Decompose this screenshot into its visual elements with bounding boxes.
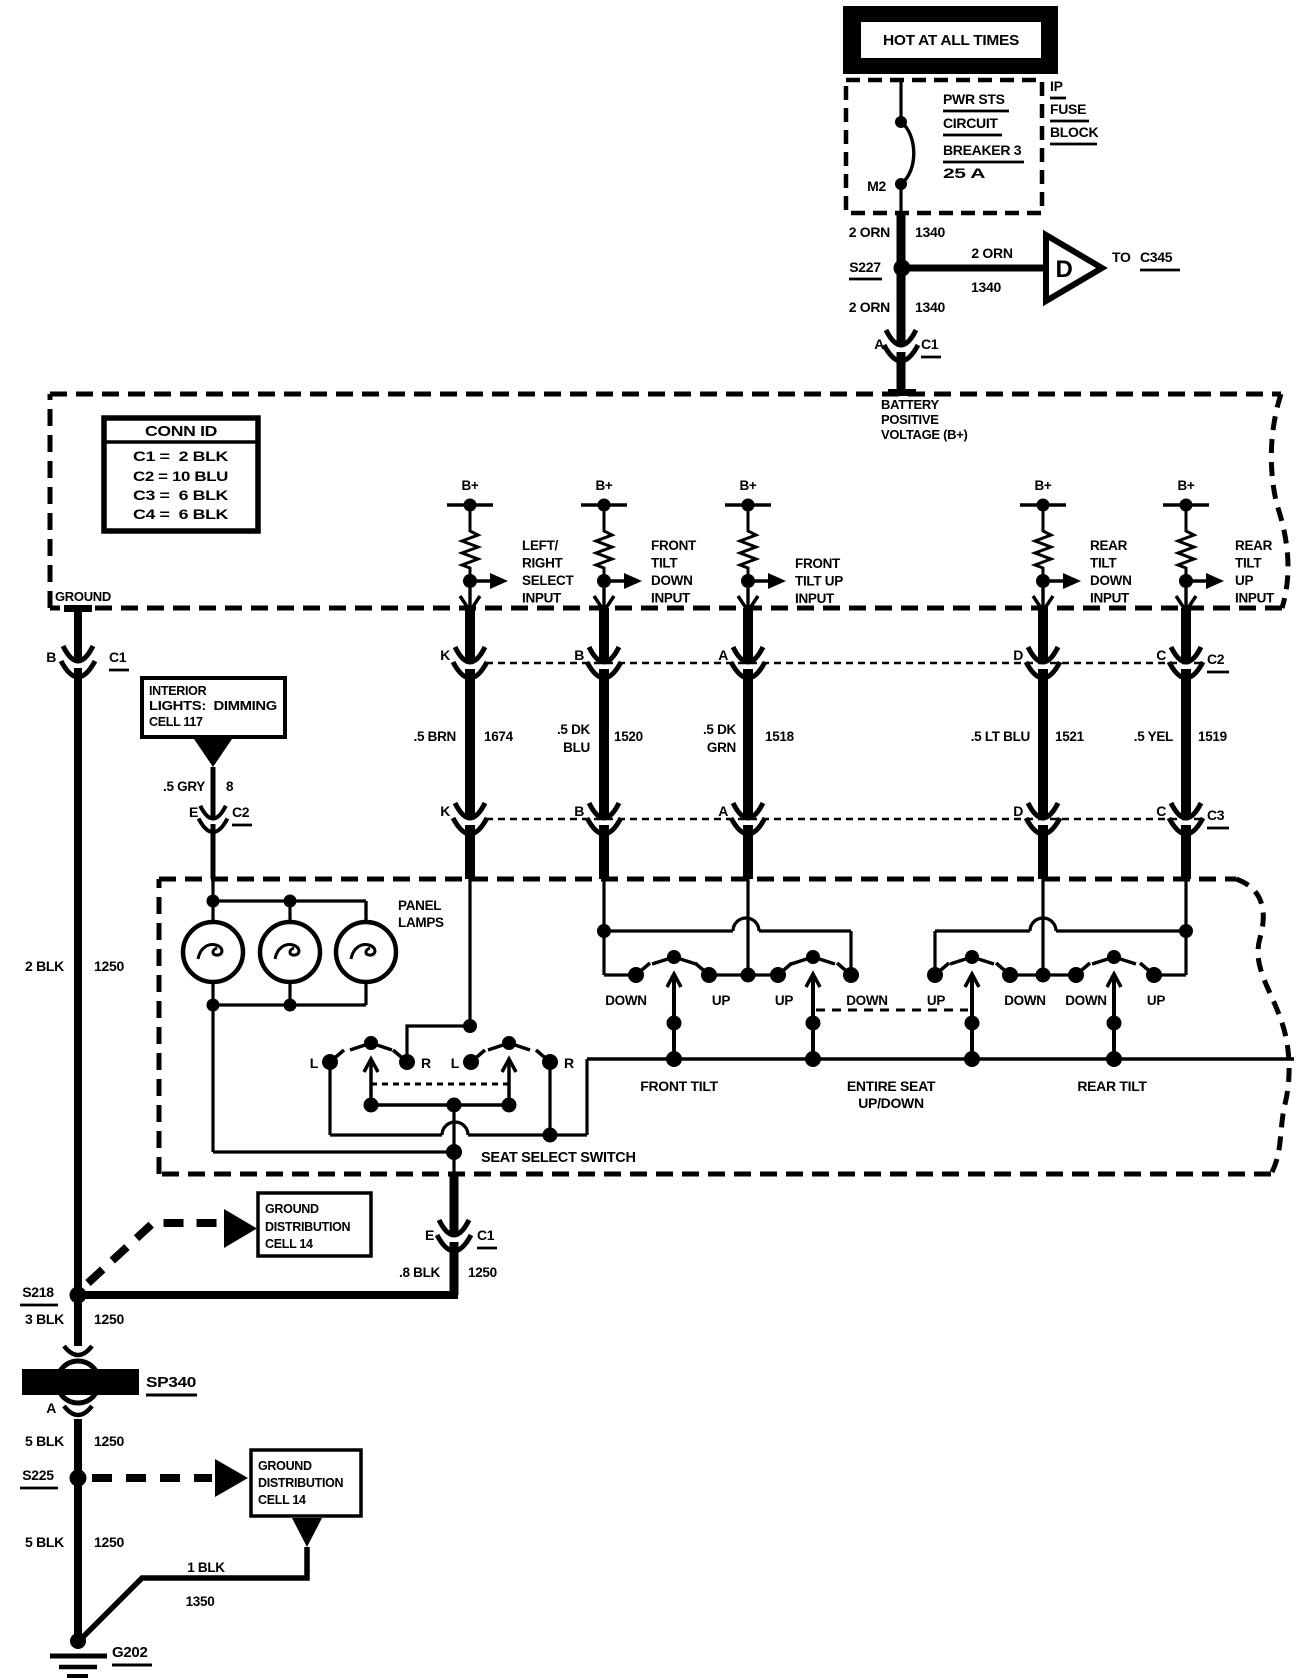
svg-text:DOWN: DOWN <box>846 993 888 1008</box>
svg-text:FRONT: FRONT <box>651 538 697 553</box>
svg-text:LEFT/: LEFT/ <box>522 538 559 553</box>
svg-text:C345: C345 <box>1140 249 1173 265</box>
svg-text:GRN: GRN <box>707 740 736 755</box>
svg-text:REAR: REAR <box>1235 538 1273 553</box>
svg-text:FRONT TILT: FRONT TILT <box>640 1078 718 1094</box>
svg-text:2 ORN: 2 ORN <box>849 224 890 240</box>
svg-text:C2 = 10 BLU: C2 = 10 BLU <box>133 468 228 484</box>
svg-text:CELL 14: CELL 14 <box>265 1237 313 1251</box>
svg-text:2 ORN: 2 ORN <box>849 299 890 315</box>
svg-text:INPUT: INPUT <box>1090 591 1130 606</box>
svg-text:ENTIRE SEAT: ENTIRE SEAT <box>847 1078 936 1094</box>
svg-text:CELL 14: CELL 14 <box>258 1493 306 1507</box>
svg-text:FRONT: FRONT <box>795 556 841 571</box>
svg-text:1520: 1520 <box>614 729 643 744</box>
svg-text:1250: 1250 <box>94 958 124 974</box>
svg-text:1250: 1250 <box>94 1534 124 1550</box>
svg-text:FUSE: FUSE <box>1050 101 1086 117</box>
svg-text:TILT UP: TILT UP <box>795 574 843 589</box>
svg-text:C2: C2 <box>1207 651 1225 667</box>
svg-text:B+: B+ <box>739 478 756 493</box>
svg-text:LIGHTS: DIMMING: LIGHTS: DIMMING <box>149 699 277 713</box>
svg-text:1250: 1250 <box>468 1265 497 1280</box>
svg-text:E: E <box>425 1227 434 1243</box>
svg-text:2 ORN: 2 ORN <box>971 245 1012 261</box>
svg-text:POSITIVE: POSITIVE <box>881 412 939 427</box>
svg-text:1 BLK: 1 BLK <box>187 1560 225 1575</box>
svg-text:UP: UP <box>1235 573 1253 588</box>
svg-text:E: E <box>189 804 198 820</box>
svg-text:25 A: 25 A <box>943 165 985 181</box>
svg-text:A: A <box>718 647 728 663</box>
svg-text:CIRCUIT: CIRCUIT <box>943 115 998 131</box>
svg-text:R: R <box>421 1055 431 1071</box>
svg-text:PWR STS: PWR STS <box>943 91 1005 107</box>
svg-text:B+: B+ <box>1177 478 1194 493</box>
svg-text:SEAT SELECT SWITCH: SEAT SELECT SWITCH <box>481 1150 636 1166</box>
svg-text:DOWN: DOWN <box>1065 993 1107 1008</box>
svg-text:C4 = 6 BLK: C4 = 6 BLK <box>133 506 228 522</box>
svg-text:.8 BLK: .8 BLK <box>399 1265 441 1280</box>
svg-text:TILT: TILT <box>1090 556 1117 571</box>
svg-text:.5 LT BLU: .5 LT BLU <box>971 729 1030 744</box>
svg-text:5 BLK: 5 BLK <box>25 1534 64 1550</box>
svg-text:INPUT: INPUT <box>522 591 562 606</box>
svg-text:VOLTAGE (B+): VOLTAGE (B+) <box>881 427 968 442</box>
svg-text:C1: C1 <box>109 649 127 665</box>
svg-text:C: C <box>1156 803 1166 819</box>
svg-text:8: 8 <box>226 779 234 794</box>
svg-text:DOWN: DOWN <box>651 573 693 588</box>
svg-text:C1 = 2 BLK: C1 = 2 BLK <box>133 448 228 464</box>
svg-text:.5 GRY: .5 GRY <box>163 779 205 794</box>
svg-text:.5 BRN: .5 BRN <box>414 729 456 744</box>
svg-text:1518: 1518 <box>765 729 795 744</box>
svg-text:G202: G202 <box>112 1644 148 1661</box>
svg-text:1521: 1521 <box>1055 729 1085 744</box>
svg-text:D: D <box>1013 803 1023 819</box>
svg-text:INPUT: INPUT <box>795 591 835 606</box>
svg-text:M2: M2 <box>867 178 886 194</box>
svg-text:1250: 1250 <box>94 1433 124 1449</box>
svg-text:CONN ID: CONN ID <box>145 423 218 440</box>
svg-text:BLU: BLU <box>563 740 590 755</box>
svg-text:L: L <box>310 1055 319 1071</box>
svg-text:1340: 1340 <box>915 299 945 315</box>
svg-text:IP: IP <box>1050 78 1063 94</box>
svg-text:INPUT: INPUT <box>1235 591 1275 606</box>
svg-text:A: A <box>718 803 728 819</box>
svg-text:UP: UP <box>927 993 945 1008</box>
svg-text:D: D <box>1013 647 1023 663</box>
svg-text:UP: UP <box>712 993 730 1008</box>
svg-text:BLOCK: BLOCK <box>1050 124 1098 140</box>
svg-text:TILT: TILT <box>651 556 678 571</box>
svg-text:DISTRIBUTION: DISTRIBUTION <box>265 1220 351 1234</box>
svg-text:BREAKER 3: BREAKER 3 <box>943 142 1022 158</box>
svg-text:UP: UP <box>1147 993 1165 1008</box>
svg-text:2 BLK: 2 BLK <box>25 958 64 974</box>
svg-text:HOT AT ALL TIMES: HOT AT ALL TIMES <box>883 32 1019 49</box>
svg-text:UP/DOWN: UP/DOWN <box>858 1095 924 1111</box>
svg-text:K: K <box>440 803 450 819</box>
svg-text:C3 = 6 BLK: C3 = 6 BLK <box>133 487 228 503</box>
svg-text:INTERIOR: INTERIOR <box>149 684 207 698</box>
svg-text:K: K <box>440 647 450 663</box>
svg-text:DOWN: DOWN <box>1090 573 1132 588</box>
svg-text:B+: B+ <box>461 478 478 493</box>
svg-text:S225: S225 <box>22 1467 54 1483</box>
svg-text:.5 DK: .5 DK <box>557 722 591 737</box>
svg-text:GROUND: GROUND <box>265 1202 319 1216</box>
svg-text:S227: S227 <box>849 259 881 275</box>
svg-text:1519: 1519 <box>1198 729 1227 744</box>
svg-text:CELL 117: CELL 117 <box>149 715 203 729</box>
svg-text:1340: 1340 <box>915 224 945 240</box>
svg-text:SELECT: SELECT <box>522 573 575 588</box>
svg-text:C: C <box>1156 647 1166 663</box>
svg-text:BATTERY: BATTERY <box>881 397 939 412</box>
svg-text:.5 YEL: .5 YEL <box>1134 729 1173 744</box>
svg-text:B: B <box>574 803 584 819</box>
svg-text:A: A <box>874 336 884 352</box>
svg-text:B: B <box>46 649 56 665</box>
svg-text:DISTRIBUTION: DISTRIBUTION <box>258 1476 344 1490</box>
svg-text:1350: 1350 <box>186 1594 215 1609</box>
svg-text:A: A <box>46 1400 56 1416</box>
svg-text:DOWN: DOWN <box>1004 993 1046 1008</box>
svg-text:C1: C1 <box>477 1227 495 1243</box>
svg-text:B: B <box>574 647 584 663</box>
svg-text:C3: C3 <box>1207 807 1225 823</box>
svg-text:SP340: SP340 <box>146 1374 196 1391</box>
svg-text:REAR TILT: REAR TILT <box>1077 1078 1147 1094</box>
svg-text:D: D <box>1055 256 1072 283</box>
svg-text:C2: C2 <box>232 804 250 820</box>
svg-text:C1: C1 <box>921 336 939 352</box>
svg-text:1340: 1340 <box>971 279 1001 295</box>
svg-text:1250: 1250 <box>94 1311 124 1327</box>
svg-text:S218: S218 <box>22 1284 54 1300</box>
svg-text:B+: B+ <box>595 478 612 493</box>
svg-text:INPUT: INPUT <box>651 591 691 606</box>
svg-text:REAR: REAR <box>1090 538 1128 553</box>
svg-text:B+: B+ <box>1034 478 1051 493</box>
svg-text:5 BLK: 5 BLK <box>25 1433 64 1449</box>
svg-text:LAMPS: LAMPS <box>398 915 444 930</box>
svg-text:GROUND: GROUND <box>55 589 111 604</box>
svg-text:1674: 1674 <box>484 729 514 744</box>
svg-text:UP: UP <box>775 993 793 1008</box>
svg-text:PANEL: PANEL <box>398 898 441 913</box>
svg-text:3 BLK: 3 BLK <box>25 1311 64 1327</box>
svg-text:.5 DK: .5 DK <box>703 722 737 737</box>
svg-text:L: L <box>451 1055 460 1071</box>
svg-text:TILT: TILT <box>1235 556 1262 571</box>
svg-text:GROUND: GROUND <box>258 1459 312 1473</box>
svg-text:RIGHT: RIGHT <box>522 556 564 571</box>
svg-text:R: R <box>564 1055 574 1071</box>
svg-text:DOWN: DOWN <box>605 993 647 1008</box>
svg-text:TO: TO <box>1112 249 1131 265</box>
